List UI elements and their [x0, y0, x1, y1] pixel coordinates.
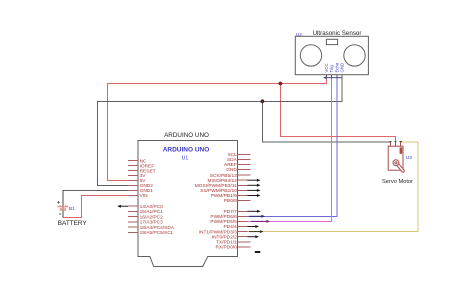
junction gray net at (262,101): [261, 99, 265, 103]
svg-text:BATTERY: BATTERY: [58, 220, 88, 227]
arrow pin PWM/PD6/6 on blue wire: [249, 215, 265, 218]
svg-text:16/A2/PC2: 16/A2/PC2: [140, 214, 164, 220]
wire orange signal: U1 PD3 to servo SIG pin: [247, 142, 418, 231]
svg-text:INT0/PD2/2: INT0/PD2/2: [212, 234, 237, 240]
svg-text:PB0/8: PB0/8: [224, 198, 237, 204]
svg-text:17/A3/PC3: 17/A3/PC3: [140, 220, 164, 226]
microcontroller U1 Arduino UNO body: [138, 141, 238, 267]
wire gray battery plus to U1 GND1: [63, 190, 128, 204]
svg-text:14/A0/PC0: 14/A0/PC0: [140, 204, 164, 210]
arrow pin 14/A0/PC0: [117, 205, 128, 208]
battery plus sign: [57, 201, 60, 204]
U3 pin end caps: [390, 141, 402, 143]
svg-text:PD4/4: PD4/4: [223, 224, 237, 230]
arrow pin SS/PWM/PB2/10: [247, 189, 260, 192]
svg-text:ARDUINO UNO: ARDUINO UNO: [164, 132, 209, 139]
svg-text:VIN: VIN: [140, 193, 149, 199]
svg-text:Servo Motor: Servo Motor: [382, 179, 413, 185]
arrow pin PD4/4: [247, 225, 259, 228]
wire red 5V net: U1 5V pin to U2 VCC: [108, 75, 327, 181]
U3 horn hub: [393, 160, 399, 166]
U3 connector red rect: [400, 147, 403, 153]
wire gray GND branch: junction to servo GND pin: [262, 101, 390, 142]
svg-text:RX/PD0/0: RX/PD0/0: [215, 245, 237, 251]
svg-text:U2: U2: [296, 32, 302, 38]
U1 right pin labels: [195, 152, 238, 250]
ultrasonic sensor U2 body: [295, 36, 368, 74]
svg-text:GND1: GND1: [140, 188, 154, 194]
svg-text:PWM/PD6/6: PWM/PD6/6: [210, 214, 237, 220]
U2 left transducer: [300, 45, 321, 66]
svg-text:15/A1/PC1: 15/A1/PC1: [140, 209, 164, 215]
U1 right pin stubs: [238, 155, 251, 247]
svg-text:PWM/PD5/5: PWM/PD5/5: [210, 219, 237, 225]
U3 pin stubs: [391, 142, 401, 146]
svg-text:B1: B1: [69, 206, 75, 212]
servo motor U3 body: [388, 146, 403, 170]
svg-text:GND: GND: [340, 63, 345, 73]
svg-text:INT1/PWM/PD3/3: INT1/PWM/PD3/3: [199, 229, 237, 235]
wire gray GND net: U1 GND2 pin to U2 GND: [98, 75, 343, 185]
U2 pin stubs VCC Trig Echo GND: [327, 75, 342, 79]
svg-text:GND: GND: [226, 167, 237, 173]
U1 left pin stubs: [128, 161, 138, 233]
arrow pin PD7/7: [247, 210, 260, 213]
arrow on U2 pins pointing left: [323, 76, 342, 79]
U2 right transducer: [344, 45, 365, 66]
arrow pin MOSI/PWM/PB3/11: [247, 184, 260, 187]
svg-text:MISO/PB4/12: MISO/PB4/12: [207, 178, 237, 184]
arrow pin PWM/PB1/9: [247, 194, 260, 197]
U3 horn arm: [397, 164, 403, 171]
svg-text:TX/PD1/1: TX/PD1/1: [216, 240, 237, 246]
arrow pin MISO/PB4/12: [247, 179, 260, 182]
arrow stray below RX pin: [255, 251, 260, 253]
svg-text:U1: U1: [182, 156, 189, 162]
svg-text:18/A4/PC4/SDA: 18/A4/PC4/SDA: [140, 225, 175, 231]
arrow pin PWM/PD5/5 on magenta wire: [251, 220, 270, 223]
wire red battery minus to U1 VIN: [63, 195, 128, 217]
wire blue Echo: U1 PD6 to U2 Echo: [247, 75, 336, 216]
battery B1 lead wire vertical: [62, 190, 64, 217]
svg-text:ARDUINO UNO: ARDUINO UNO: [163, 146, 210, 153]
svg-text:Ultrasonic Sensor: Ultrasonic Sensor: [313, 30, 362, 37]
svg-text:19/A5/PC5/SCL: 19/A5/PC5/SCL: [140, 230, 174, 236]
battery minus sign: [59, 213, 61, 215]
svg-text:SS/PWM/PB2/10: SS/PWM/PB2/10: [200, 188, 237, 194]
wire magenta Trig: U1 PD5 to U2 Trig: [247, 75, 331, 221]
wire red 5V branch: junction to servo V+ pin: [280, 84, 395, 142]
U1 left pin labels: [140, 158, 175, 236]
arrow pin INT1/PWM/PD3/3 on orange wire: [249, 230, 264, 233]
junction red net at (280,84): [279, 82, 283, 86]
battery B1 plates: [58, 205, 69, 210]
svg-text:U3: U3: [406, 155, 412, 161]
U2 crystal rectangle: [326, 39, 337, 44]
svg-text:MOSI/PWM/PB3/11: MOSI/PWM/PB3/11: [195, 183, 237, 189]
arrow pin INT0/PD2/2: [247, 235, 259, 238]
svg-text:SCK/PB5/13: SCK/PB5/13: [210, 173, 237, 179]
